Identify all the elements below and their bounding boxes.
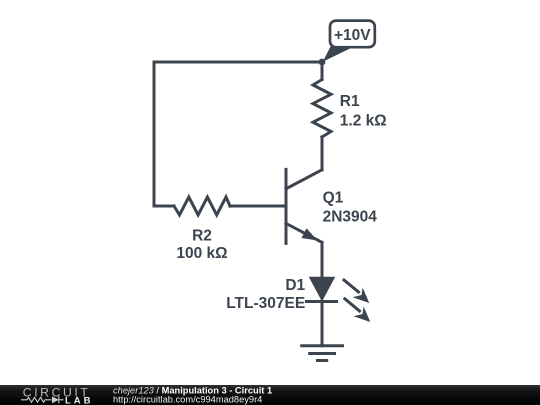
svg-text:LAB: LAB	[65, 395, 94, 405]
svg-text:2N3904: 2N3904	[323, 208, 378, 225]
svg-text:D1: D1	[285, 277, 305, 294]
svg-text:+10V: +10V	[334, 27, 371, 44]
svg-text:LTL-307EE: LTL-307EE	[226, 295, 305, 312]
svg-text:Q1: Q1	[323, 189, 344, 206]
svg-text:R1: R1	[340, 93, 360, 110]
svg-text:1.2 kΩ: 1.2 kΩ	[340, 112, 387, 129]
svg-text:R2: R2	[192, 227, 212, 244]
svg-text:http://circuitlab.com/c994mad8: http://circuitlab.com/c994mad8ey9r4	[113, 395, 262, 405]
svg-text:100 kΩ: 100 kΩ	[176, 245, 227, 262]
